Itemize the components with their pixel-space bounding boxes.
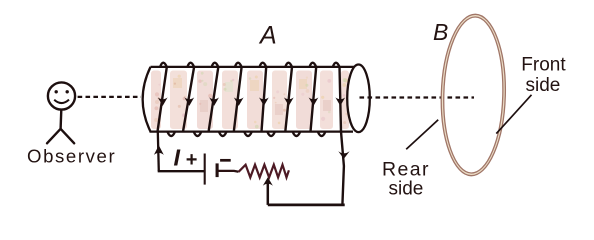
- svg-text:A: A: [258, 22, 277, 50]
- rheostat wiper arrow head: [263, 177, 273, 186]
- coil turn 8 and right lead wire: [333, 63, 345, 205]
- svg-text:Front: Front: [521, 54, 566, 75]
- left lead wire from coil: [158, 132, 159, 172]
- coil turn 4: [234, 63, 252, 136]
- svg-text:I: I: [174, 145, 181, 171]
- current arrow up on left lead: [154, 145, 164, 155]
- coil turn 1: [158, 63, 176, 136]
- svg-text:Observer: Observer: [27, 146, 116, 167]
- wire dashed axis right segment: [360, 96, 475, 98]
- rheostat R1 zigzag: [239, 165, 289, 178]
- svg-text:side: side: [526, 75, 561, 96]
- coil turn 3: [209, 63, 227, 136]
- svg-text:+: +: [186, 149, 198, 171]
- current arrow down on right lead: [338, 151, 349, 159]
- coil turn 2: [183, 63, 201, 136]
- wire battery to rheostat: [218, 170, 238, 173]
- observer body and legs: [47, 110, 74, 144]
- label minus: [220, 159, 231, 162]
- svg-text:side: side: [389, 179, 424, 200]
- svg-text:Rear: Rear: [382, 159, 430, 181]
- ring B outer edge: [439, 13, 507, 176]
- ring B inner edge: [442, 16, 505, 174]
- solenoid U1 pink core texture: [151, 71, 349, 130]
- coil turn 5: [259, 63, 275, 136]
- wire lead to battery: [158, 170, 205, 172]
- battery BT1 positive plate: [204, 154, 206, 185]
- ring B band fill: [439, 13, 507, 176]
- wire dashed axis left segment: [78, 96, 141, 98]
- leader line to front side: [496, 95, 531, 134]
- solenoid U1 right end ellipse: [347, 65, 370, 133]
- battery BT1 negative plate: [216, 163, 219, 177]
- svg-text:B: B: [433, 19, 448, 45]
- coil turn 7: [309, 63, 326, 136]
- leader line to rear side: [406, 120, 438, 150]
- solenoid U1 cylinder body: [143, 67, 357, 132]
- coil turn 6: [284, 63, 300, 136]
- rheostat wiper arm wire: [267, 182, 270, 205]
- wire bottom return: [268, 204, 345, 207]
- observer head: [48, 82, 75, 109]
